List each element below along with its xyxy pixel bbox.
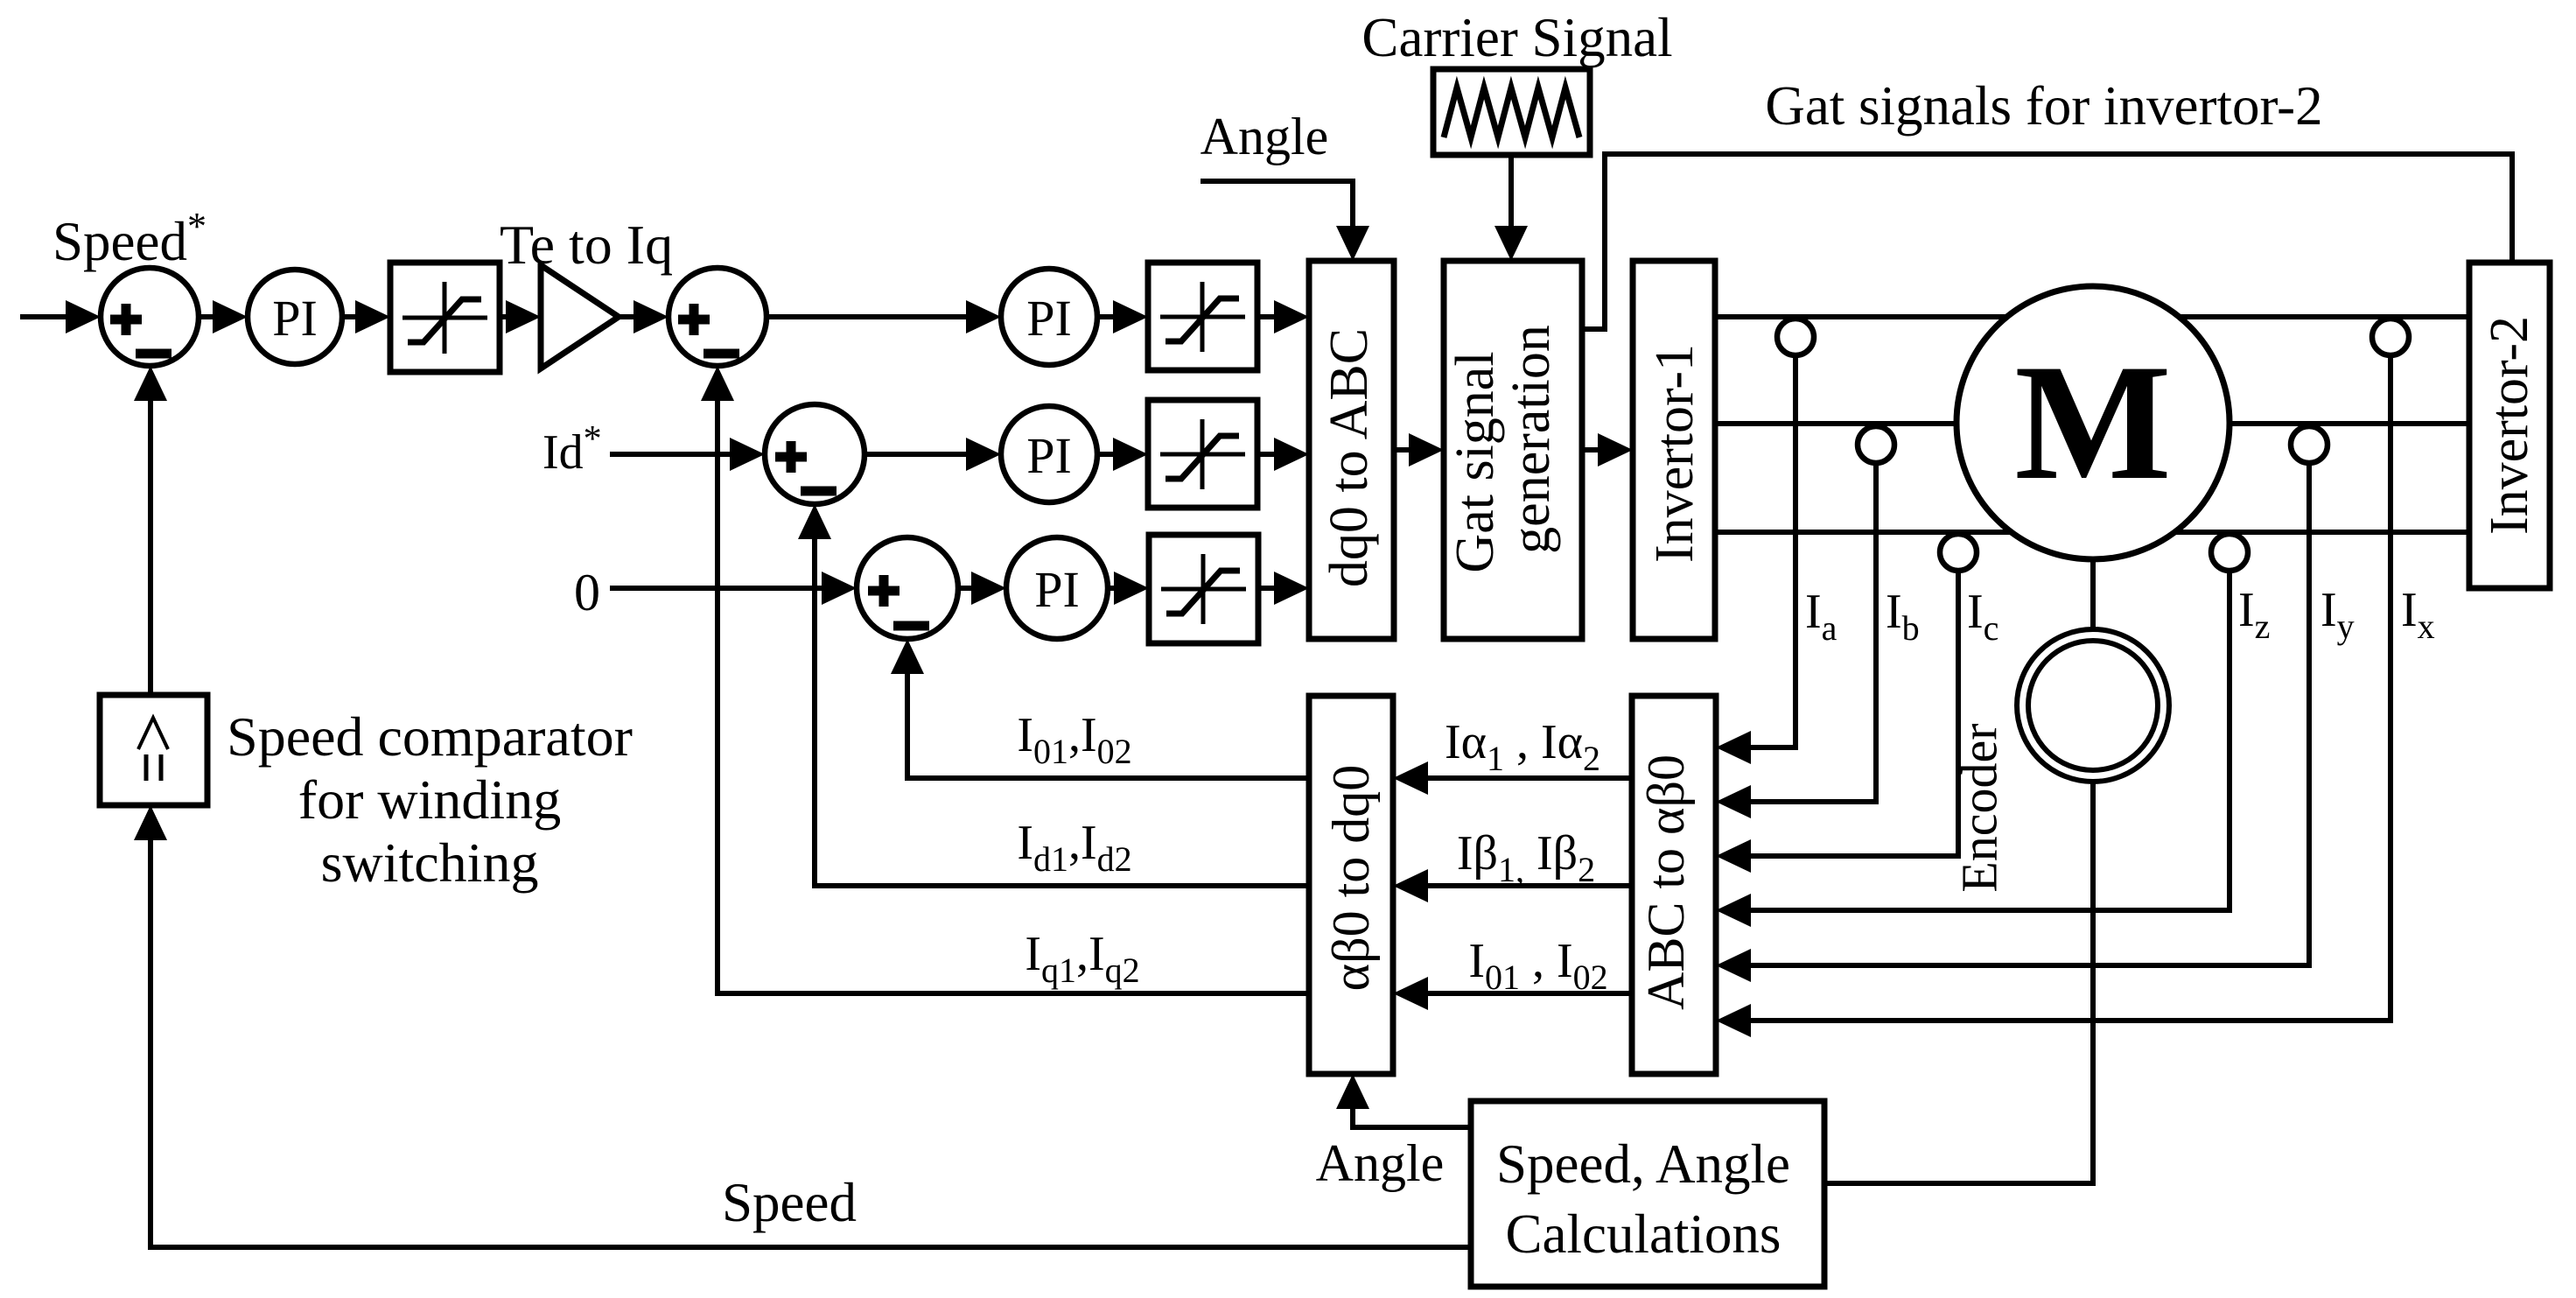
limiter L4 [1149, 535, 1258, 643]
wire PI3 to limiter [1097, 438, 1148, 471]
wire comparator to S1 [134, 366, 167, 695]
svg-text:PI: PI [1034, 561, 1080, 618]
wire gain to S2 [619, 300, 668, 333]
wire Iz to ABC box [1716, 571, 2229, 927]
block Speed Angle Calculations [1471, 1101, 1824, 1287]
svg-text:Speed: Speed [722, 1172, 857, 1233]
wire motor to encoder [2090, 559, 2096, 631]
wire Ic to ABC box [1716, 571, 1958, 873]
svg-text:Iα1 , Iα2: Iα1 , Iα2 [1445, 715, 1600, 778]
current sensor Ia [1777, 319, 1814, 355]
limiter L2 [1148, 263, 1257, 370]
wire Ia to ABC box [1716, 355, 1795, 764]
block Invertor-2 [2469, 263, 2550, 588]
summing junction S2 [668, 268, 766, 366]
svg-text:for winding: for winding [298, 768, 561, 831]
wire PI4 to limiter [1108, 572, 1149, 605]
wire I0 between boxes [1393, 977, 1632, 1010]
svg-text:Invertor-1: Invertor-1 [1645, 344, 1704, 563]
PI controller PI1 [248, 270, 342, 364]
wire limiter to dq0 box d-row [1257, 438, 1309, 471]
svg-text:αβ0 to dq0: αβ0 to dq0 [1322, 765, 1380, 992]
svg-text:dq0 to ABC: dq0 to ABC [1319, 328, 1379, 587]
wire PI1 to limiter [342, 300, 390, 333]
PI controller PI2 [1001, 269, 1097, 365]
limiter L1 [390, 263, 500, 372]
svg-text:0: 0 [574, 564, 600, 621]
svg-text:Te to Iq: Te to Iq [500, 214, 673, 276]
current sensor Iy [2291, 426, 2327, 463]
wire phase line B [1715, 421, 2469, 426]
svg-text:Gat signal: Gat signal [1445, 351, 1505, 572]
svg-text:Calculations: Calculations [1506, 1203, 1781, 1265]
svg-text:Angle: Angle [1200, 108, 1329, 165]
svg-text:Invertor-2: Invertor-2 [2480, 316, 2539, 535]
svg-text:Iβ1, Iβ2: Iβ1, Iβ2 [1457, 826, 1595, 889]
PI controller PI3 [1001, 406, 1097, 502]
PI controller PI4 [1006, 537, 1108, 639]
wire Ialpha between boxes [1393, 761, 1632, 795]
wire S2 to PI2 [766, 300, 1001, 333]
wire speed feedback [134, 805, 1471, 1247]
summing junction S1 [101, 268, 199, 366]
speed comparator box [100, 695, 207, 805]
wire gat to invertor-1 [1582, 433, 1633, 467]
svg-text:Gat signals for invertor-2: Gat signals for invertor-2 [1765, 75, 2322, 137]
wire encoder to speed angle calculations [1824, 782, 2093, 1183]
wire 0 input [610, 572, 857, 605]
wire S1 to PI1 [199, 300, 248, 333]
svg-text:Speed, Angle: Speed, Angle [1496, 1133, 1790, 1195]
svg-text:Speed*: Speed* [52, 205, 206, 272]
wire S4 to PI4 [958, 572, 1006, 605]
block ABC to alpha-beta-0 [1632, 696, 1716, 1074]
wire limiter to dq0 box q-row [1257, 300, 1309, 333]
motor M [1956, 286, 2229, 559]
wire S3 to PI3 [864, 438, 1001, 471]
wire carrier to gat box [1494, 155, 1528, 261]
wire Ix to ABC box [1716, 355, 2390, 1037]
block Gat signal generation [1444, 261, 1582, 639]
encoder [2017, 629, 2169, 782]
wire gat signals to invertor-2 [1582, 154, 2512, 329]
carrier signal source box [1433, 69, 1590, 155]
wire Ibeta between boxes [1393, 869, 1632, 902]
svg-text:M: M [2014, 331, 2171, 515]
svg-text:Carrier Signal: Carrier Signal [1361, 7, 1672, 68]
svg-text:PI: PI [1026, 427, 1072, 484]
current sensor Ic [1940, 534, 1977, 571]
wire dq0 to gat [1394, 433, 1444, 467]
wire Iy to ABC box [1716, 463, 2309, 982]
block Invertor-1 [1633, 261, 1715, 639]
svg-text:Speed comparator: Speed comparator [227, 705, 633, 768]
svg-text:PI: PI [1026, 290, 1072, 347]
wire Iq feedback to S2 [701, 366, 1309, 993]
limiter L3 [1148, 400, 1257, 508]
svg-text:PI: PI [272, 290, 318, 347]
gain Te to Iq triangle [541, 265, 619, 368]
wire limiter to dq0 box 0-row [1258, 572, 1309, 605]
summing junction S4 [857, 537, 958, 639]
svg-text:Angle: Angle [1316, 1134, 1445, 1192]
block dq0 to ABC [1309, 261, 1394, 639]
svg-text:generation: generation [1501, 325, 1561, 554]
wire phase line A [1715, 314, 2469, 319]
wire limiter to gain [500, 300, 541, 333]
wire Id feedback to S3 [798, 504, 1309, 886]
wire Id* input [610, 438, 765, 471]
svg-text:switching: switching [321, 831, 539, 894]
current sensor Ib [1858, 426, 1894, 463]
current sensor Iz [2211, 534, 2248, 571]
block alpha-beta-0 to dq0 [1309, 696, 1393, 1074]
wire phase line C [1715, 530, 2469, 535]
wire Ib to ABC box [1716, 463, 1876, 818]
wire speed reference input [20, 300, 101, 333]
summing junction S3 [765, 404, 864, 504]
wire I0 feedback to S4 [891, 639, 1309, 778]
wire angle into dq0 box [1200, 181, 1369, 261]
current sensor Ix [2372, 319, 2409, 355]
wire angle to alpha-beta box [1336, 1074, 1471, 1127]
wire PI2 to limiter [1097, 300, 1148, 333]
svg-text:ABC to αβ0: ABC to αβ0 [1637, 754, 1695, 1010]
